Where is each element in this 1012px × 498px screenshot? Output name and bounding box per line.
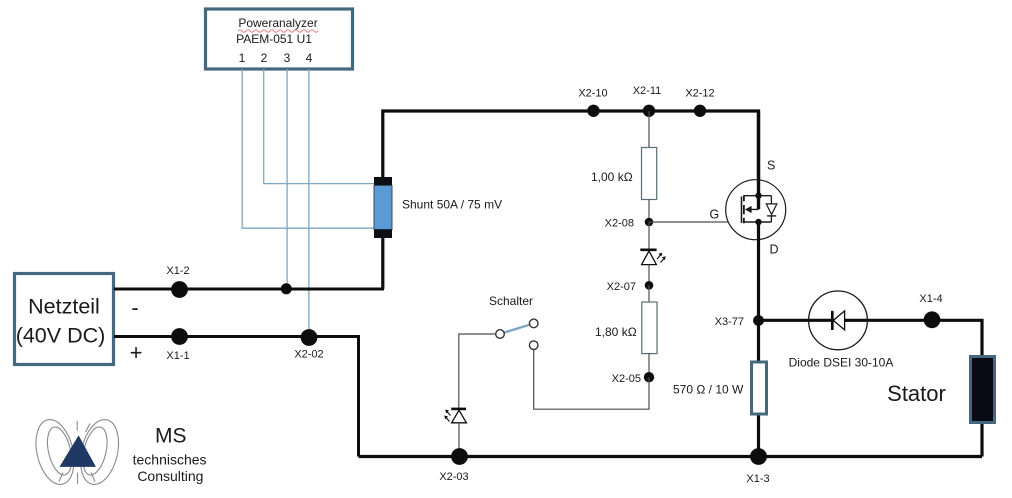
logo triangle: [60, 435, 96, 467]
resistor 1,00 kOhm: [591, 148, 657, 200]
svg-text:X1-2: X1-2: [166, 265, 189, 277]
svg-text:Shunt 50A / 75 mV: Shunt 50A / 75 mV: [402, 198, 502, 212]
wire plus rail: [114, 337, 359, 457]
junction pin3 on minus rail: [281, 283, 292, 294]
netzteil box: [15, 274, 114, 365]
svg-text:X2-03: X2-03: [439, 471, 468, 483]
svg-text:1,00 kΩ: 1,00 kΩ: [591, 170, 633, 184]
sense wire pin3 to minus rail: [286, 69, 288, 289]
node X2-05: [612, 372, 655, 385]
wire switch to LED D2: [459, 334, 496, 409]
node X2-03: [439, 448, 468, 483]
wire bottom rail: [359, 455, 983, 458]
svg-text:3: 3: [284, 51, 291, 65]
svg-text:1,80 kΩ: 1,80 kΩ: [595, 325, 637, 339]
svg-text:X2-11: X2-11: [633, 85, 662, 97]
sense wire pin4 to node X2-02: [308, 69, 310, 337]
svg-text:X2-08: X2-08: [605, 218, 634, 230]
sense wire pin1 to shunt: [242, 69, 374, 228]
wire X2-08 to LED D1: [648, 222, 650, 250]
sense wire pin2 to shunt: [264, 69, 374, 184]
node X1-3: [746, 448, 769, 485]
label minus: [131, 295, 138, 320]
shunt 50A / 75 mV: [374, 177, 392, 238]
label Poweranalyzer: [238, 16, 318, 32]
svg-text:1: 1: [239, 51, 246, 65]
node X2-02: [294, 329, 323, 360]
label D: [770, 243, 779, 257]
switch S1: [496, 319, 538, 349]
logo field lines: [30, 416, 124, 488]
node X2-11: [633, 85, 662, 117]
svg-text:X2-12: X2-12: [685, 88, 714, 100]
wire minus rail: [114, 288, 384, 291]
pin 3: [284, 51, 291, 65]
label G: [710, 208, 720, 222]
wire mosfet drain to X3-77: [757, 222, 760, 321]
pin 2: [261, 51, 268, 65]
label technisches: [133, 452, 207, 468]
svg-text:(40V DC): (40V DC): [16, 324, 106, 348]
wire X3-77 to stator top: [759, 320, 983, 355]
wire LED D2 to X2-03: [458, 423, 460, 456]
svg-text:Diode DSEI 30-10A: Diode DSEI 30-10A: [789, 356, 894, 370]
label Consulting: [137, 468, 203, 484]
gate wire X2-08 to mosfet: [649, 221, 742, 223]
svg-text:Poweranalyzer: Poweranalyzer: [238, 16, 317, 30]
pin 4: [306, 51, 313, 65]
svg-text:Netzteil: Netzteil: [28, 295, 100, 319]
svg-text:G: G: [710, 208, 720, 222]
wire X3-77 to resistor R3: [757, 321, 760, 457]
svg-text:X2-02: X2-02: [294, 349, 323, 361]
label MS: [155, 425, 187, 448]
svg-text:4: 4: [306, 51, 313, 65]
node X1-1: [166, 328, 189, 362]
wire resistor to X2-08: [648, 200, 650, 223]
label S: [767, 159, 775, 173]
svg-text:X1-4: X1-4: [919, 293, 942, 305]
svg-text:Schalter: Schalter: [489, 294, 533, 308]
label plus: [130, 340, 143, 365]
node X1-4: [919, 293, 942, 328]
svg-text:X2-10: X2-10: [578, 88, 607, 100]
node X2-08: [605, 218, 654, 230]
poweranalyzer box U1: [206, 9, 353, 69]
svg-text:technisches: technisches: [133, 452, 207, 468]
node X2-10: [578, 88, 607, 118]
node X1-2: [166, 265, 189, 298]
wire LED D1 to X2-07: [648, 265, 650, 285]
svg-text:X2-07: X2-07: [607, 281, 636, 293]
svg-text:MS: MS: [155, 425, 187, 448]
svg-text:X3-77: X3-77: [715, 316, 744, 328]
wire resistor R2 to X2-05: [648, 354, 650, 377]
label Schalter: [489, 294, 533, 308]
wire X2-11 to resistor R1: [648, 111, 650, 148]
svg-text:S: S: [767, 159, 775, 173]
svg-text:570 Ω / 10 W: 570 Ω / 10 W: [673, 383, 744, 397]
svg-text:+: +: [130, 340, 143, 365]
label shunt: [402, 198, 502, 212]
svg-text:X1-1: X1-1: [166, 350, 189, 362]
label PAEM-051 U1: [236, 32, 312, 46]
pin 1: [239, 51, 246, 65]
svg-text:2: 2: [261, 51, 268, 65]
LED D2: [445, 409, 466, 423]
resistor 570 Ohm / 10 W: [673, 362, 767, 414]
svg-text:Consulting: Consulting: [137, 468, 203, 484]
svg-text:-: -: [131, 295, 138, 320]
svg-text:PAEM-051 U1: PAEM-051 U1: [236, 32, 312, 46]
wire X2-07 to resistor R2: [648, 285, 650, 302]
diode DSEI circle: [809, 291, 868, 350]
svg-text:Stator: Stator: [887, 381, 946, 406]
resistor 1,80 kOhm: [595, 302, 657, 354]
node X2-07: [607, 281, 654, 293]
svg-text:X1-3: X1-3: [746, 473, 769, 485]
stator: [887, 357, 994, 457]
svg-text:X2-05: X2-05: [612, 373, 641, 385]
wire X2-05 to switch: [534, 350, 649, 410]
svg-text:D: D: [770, 243, 779, 257]
wire shunt top to rail: [383, 111, 759, 289]
node X2-12: [685, 88, 714, 118]
node X3-77: [715, 315, 764, 328]
LED D1: [640, 250, 665, 265]
mosfet Q1: [726, 111, 786, 240]
label Diode DSEI 30-10A: [789, 356, 894, 370]
